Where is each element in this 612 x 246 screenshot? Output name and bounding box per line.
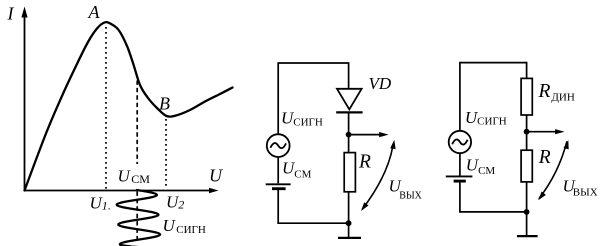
svg-text:UВЫХ: UВЫХ [389,176,423,201]
svg-text:A: A [88,2,101,22]
svg-text:I: I [7,4,15,24]
svg-text:UСИГН: UСИГН [163,216,206,236]
svg-text:UСМ: UСМ [118,167,151,187]
svg-text:U1.: U1. [90,193,111,212]
svg-text:B: B [159,94,170,114]
svg-text:R: R [358,152,371,173]
svg-text:UСМ: UСМ [282,158,312,180]
svg-text:U: U [209,166,223,186]
svg-text:R: R [538,147,551,168]
svg-text:UВЫХ: UВЫХ [563,176,598,198]
svg-text:UСИГН: UСИГН [281,109,323,129]
svg-text:UСМ: UСМ [466,155,496,176]
svg-text:RДИН: RДИН [538,81,575,104]
svg-text:VD: VD [369,74,392,93]
svg-text:UСИГН: UСИГН [465,108,507,128]
svg-text:U2: U2 [166,193,184,212]
